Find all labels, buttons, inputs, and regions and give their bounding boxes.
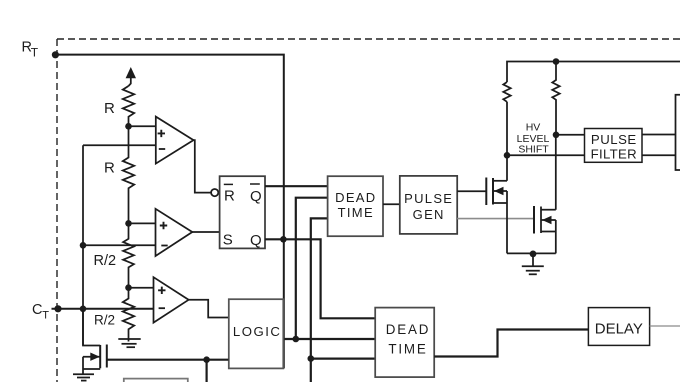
- top rail wire VB: [507, 62, 680, 83]
- C2 minus marker: [161, 245, 167, 247]
- node HV shift left: [504, 152, 511, 159]
- transistor M3 (CT discharge): [83, 309, 107, 369]
- resistor R/2 (third): [123, 223, 134, 287]
- svg-text:T: T: [31, 45, 39, 59]
- pin label RT: [22, 39, 39, 59]
- resistor R (second): [123, 126, 134, 223]
- wire PULSE FILTER bottom output: [642, 154, 676, 156]
- node bus B junction: [308, 355, 315, 362]
- resistor R (top): [123, 86, 134, 126]
- ground below M3: [73, 369, 94, 381]
- label HV LEVEL SHIFT: [517, 122, 550, 156]
- wire left pull-up to node: [506, 102, 508, 156]
- C3 plus marker: [158, 287, 165, 294]
- C1 plus marker: [158, 130, 165, 137]
- wire comparator C2 minus input: [83, 244, 156, 246]
- wire Qbar output to DEAD TIME 1: [265, 185, 328, 187]
- wire comparator C1 minus input: [83, 144, 156, 146]
- wire comparator C3 plus input: [129, 287, 154, 289]
- svg-text:DELAY: DELAY: [595, 320, 643, 337]
- node Q / RT rail junction: [280, 236, 287, 243]
- wire gate line branch down: [206, 360, 208, 382]
- latch pin label Qbar: [250, 188, 262, 205]
- wire bus A to DEAD TIME 1 input 2: [296, 198, 328, 339]
- node CT border junction: [54, 305, 61, 312]
- svg-text:T: T: [42, 309, 49, 321]
- wire comparator C2 plus input: [129, 222, 156, 224]
- svg-text:HV: HV: [526, 122, 541, 134]
- block DEAD TIME 1: [328, 176, 383, 236]
- node LOGIC output / bus A junction: [293, 336, 300, 343]
- inverter bubble at latch R input: [211, 189, 218, 196]
- svg-text:C: C: [32, 302, 42, 318]
- wire C3 output to LOGIC: [189, 300, 229, 318]
- block DELAY: [588, 308, 649, 346]
- resistor pull-up left: [503, 82, 510, 102]
- svg-text:R: R: [104, 159, 115, 176]
- node divider tap 3: [125, 284, 132, 291]
- wire comparator C1 plus input: [129, 125, 156, 127]
- svg-text:PULSE: PULSE: [404, 191, 453, 206]
- svg-text:TIME: TIME: [338, 205, 374, 220]
- node HV shift right: [553, 132, 560, 139]
- block bottom (cut off): [124, 379, 188, 382]
- svg-text:Q: Q: [250, 232, 262, 249]
- node rail to C2 minus junction: [80, 242, 87, 249]
- wire DELAY output (gray): [650, 325, 680, 327]
- svg-text:SHIFT: SHIFT: [518, 144, 549, 156]
- resistor pull-up middle: [552, 62, 559, 135]
- ground below R/2 divider: [118, 339, 140, 347]
- op-amp comparator C2: [156, 209, 193, 256]
- node divider tap 2: [125, 220, 132, 227]
- wire Q output to dead-time top bus: [265, 239, 375, 318]
- wire DEAD TIME 2 output to DELAY: [434, 330, 588, 357]
- block PULSE FILTER: [585, 129, 643, 163]
- transistor M1: [486, 155, 507, 253]
- wire C2 output to latch S input: [192, 231, 219, 233]
- C3 minus marker: [159, 307, 165, 309]
- svg-text:Q: Q: [250, 188, 262, 205]
- wire C1 output to latch R input: [194, 140, 212, 193]
- svg-text:R/2: R/2: [94, 253, 117, 269]
- C2 plus marker: [160, 222, 167, 229]
- node CT rail junction: [80, 306, 87, 313]
- svg-text:DEAD: DEAD: [335, 190, 376, 205]
- svg-text:S: S: [223, 231, 233, 248]
- svg-text:DEAD: DEAD: [386, 322, 430, 337]
- wire M3 gate line from LOGIC: [107, 359, 229, 361]
- SR latch U1: [220, 176, 265, 248]
- wire bus B to DEAD TIME 1 input 3: [311, 218, 328, 382]
- wire DEAD TIME 1 to PULSE GEN: [383, 203, 400, 205]
- node source rail ground junction: [530, 251, 537, 258]
- wire half-bridge source rail: [507, 252, 556, 254]
- op-amp comparator C3: [154, 277, 189, 322]
- svg-text:GEN: GEN: [413, 207, 445, 222]
- node divider tap 1: [125, 123, 132, 130]
- wire HV node to PULSE FILTER bottom input: [507, 154, 585, 156]
- block DEAD TIME 2: [375, 308, 434, 378]
- svg-text:FILTER: FILTER: [591, 147, 637, 162]
- node gate line junction: [203, 356, 210, 363]
- svg-text:PULSE: PULSE: [591, 132, 637, 147]
- block LOGIC: [229, 299, 283, 368]
- C1 minus marker: [159, 148, 165, 150]
- svg-text:R: R: [104, 100, 115, 117]
- driver block edge at right: [676, 95, 680, 170]
- svg-text:R: R: [224, 188, 235, 205]
- pin label CT: [32, 302, 49, 321]
- VCC arrow at top of divider: [126, 67, 136, 86]
- wire bus B branch to DEAD TIME 2 bottom input: [311, 358, 375, 360]
- transistor M2: [534, 135, 556, 254]
- svg-text:R/2: R/2: [94, 313, 115, 328]
- wire LOGIC output to DEAD TIME 2 middle input: [284, 338, 375, 340]
- svg-text:TIME: TIME: [388, 342, 427, 357]
- Rbar overline: [224, 183, 233, 185]
- resistor R/2 (fourth): [123, 288, 134, 342]
- Qbar overline: [250, 183, 260, 185]
- ground below half-bridge: [522, 254, 544, 274]
- wire PULSE FILTER top output: [642, 134, 676, 136]
- wire bubble to latch: [218, 192, 219, 194]
- block PULSE GEN: [400, 176, 457, 234]
- wire left feedback rail: [82, 145, 84, 345]
- wire CT line to comparator C3 minus input: [52, 308, 154, 310]
- op-amp comparator C1: [156, 117, 194, 164]
- wire HV node to PULSE FILTER top input: [556, 134, 585, 136]
- svg-text:LOGIC: LOGIC: [233, 324, 282, 339]
- wire PULSE GEN top output to M1 gate: [457, 190, 486, 192]
- latch pin label Rbar: [224, 188, 235, 205]
- node RT pin junction: [52, 51, 59, 58]
- wire RT rail: from RT pin right then down to LOGIC: [52, 55, 284, 369]
- wire PULSE GEN bottom output to M2 gate (gray): [457, 218, 534, 220]
- node top rail junction: [553, 58, 560, 65]
